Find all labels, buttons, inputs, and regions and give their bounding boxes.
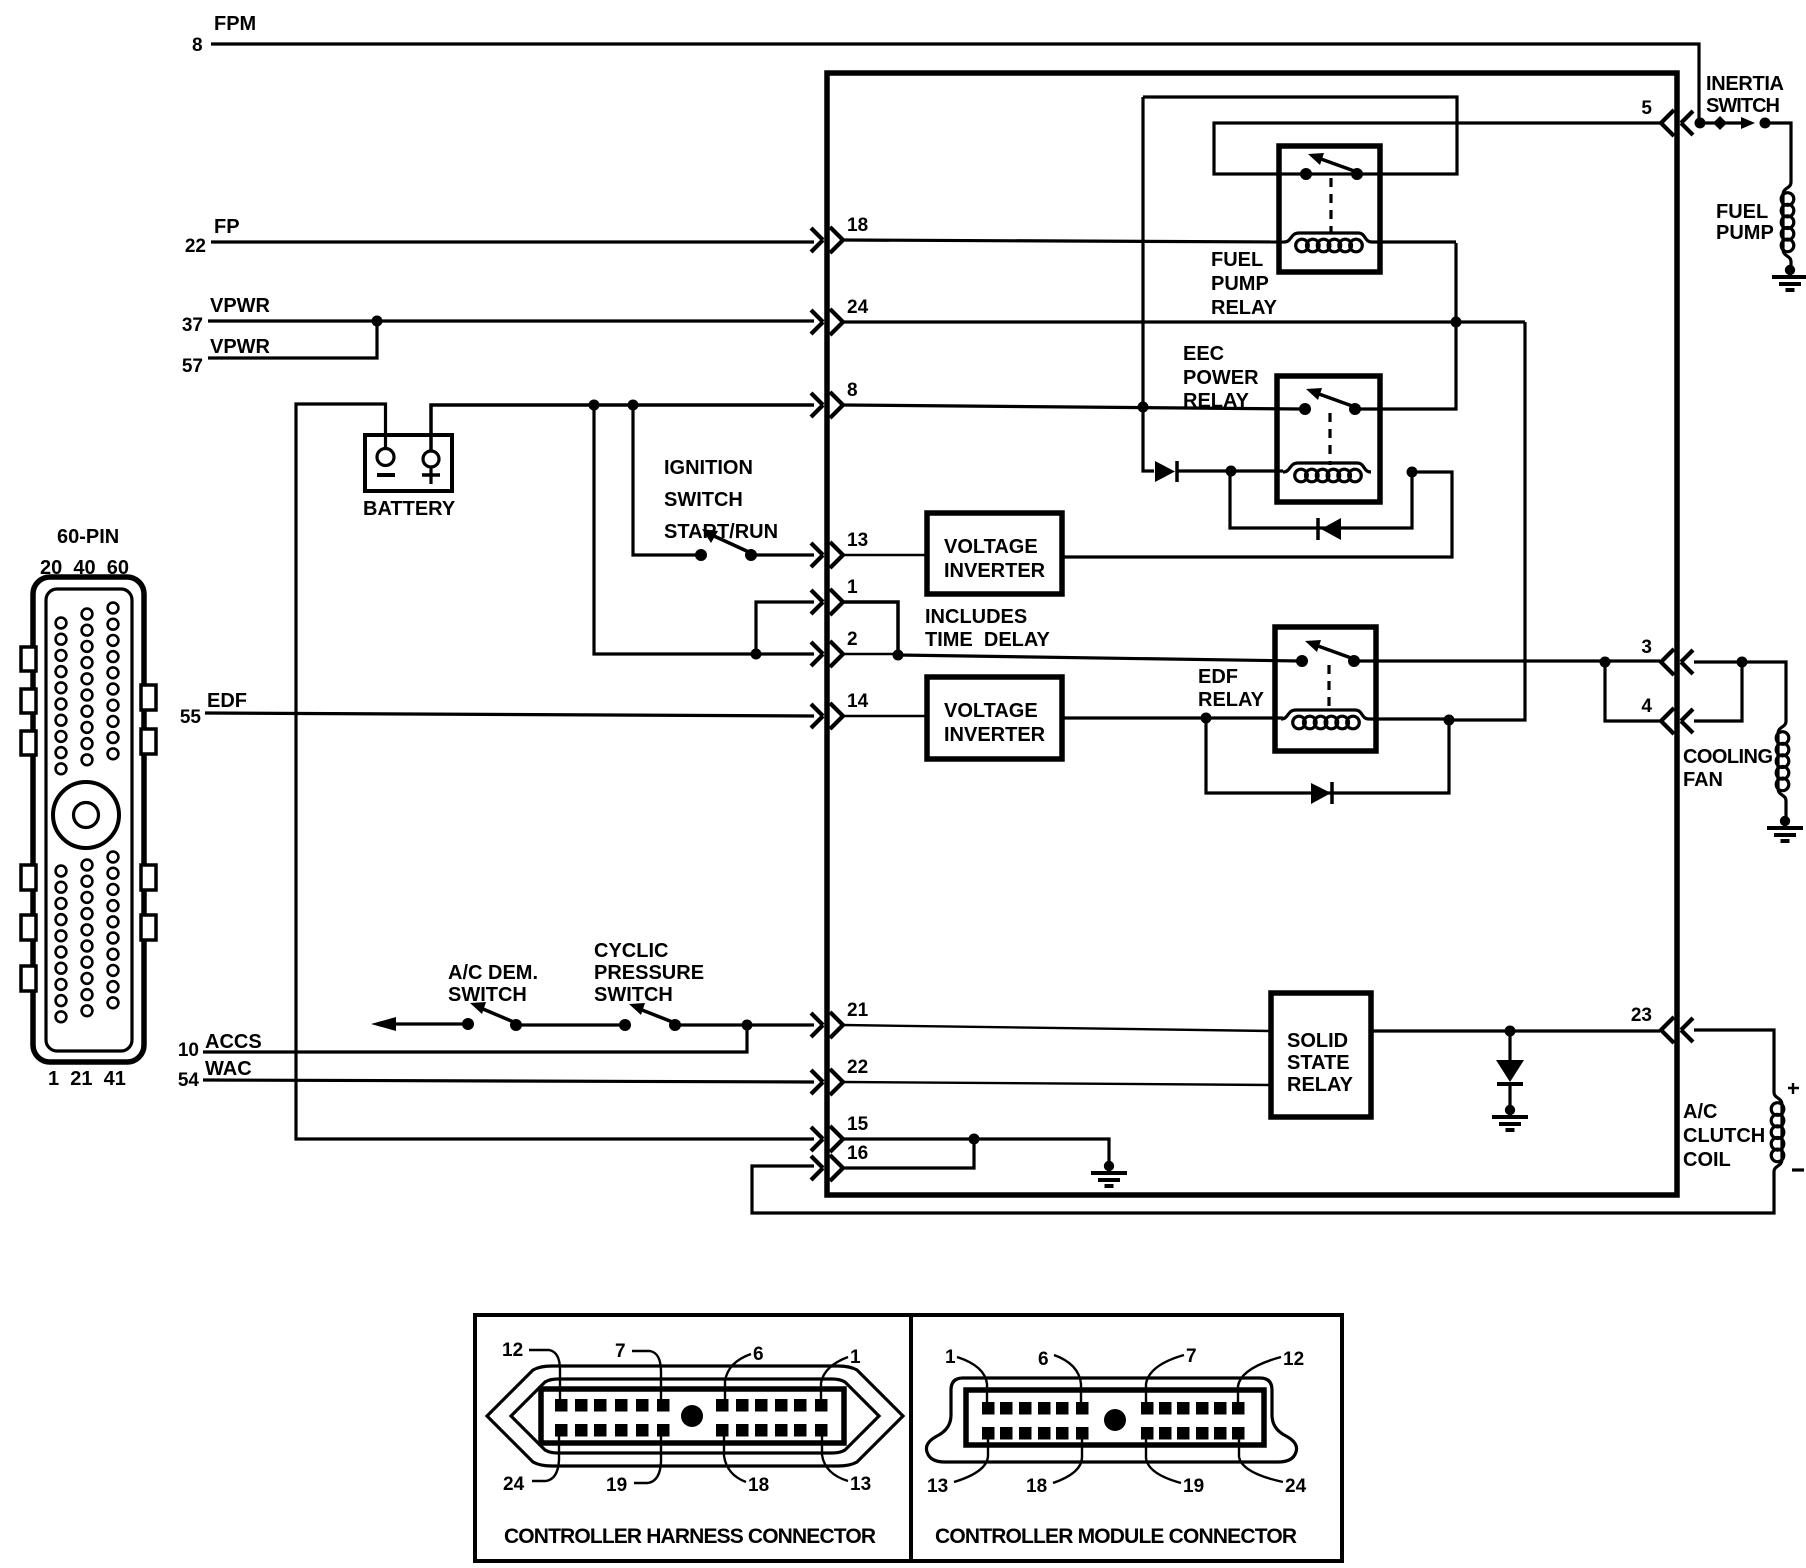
svg-text:EEC: EEC bbox=[1183, 343, 1224, 365]
60-pin connector pin holes (bottom block) bbox=[56, 852, 119, 1023]
wire FP to pin 18 bbox=[211, 240, 814, 243]
pin 2 connector chevrons bbox=[811, 641, 843, 667]
svg-text:A/C DEM.: A/C DEM. bbox=[448, 962, 538, 984]
svg-text:RELAY: RELAY bbox=[1287, 1074, 1354, 1096]
svg-text:7: 7 bbox=[615, 1341, 626, 1362]
svg-text:24: 24 bbox=[847, 297, 869, 318]
wire fuel pump relay coil to column bbox=[1372, 240, 1456, 243]
pin 24 leader bbox=[1239, 1439, 1283, 1482]
wire solid state relay output to pin 23 bbox=[1371, 1029, 1660, 1032]
pin 19 leader bbox=[634, 1436, 661, 1483]
wire inertia switch to fuel pump bbox=[1765, 123, 1791, 182]
svg-text:18: 18 bbox=[748, 1475, 769, 1496]
pin 1 leader bbox=[821, 1357, 848, 1401]
pin 24 connector chevrons bbox=[811, 309, 843, 335]
svg-text:12: 12 bbox=[1283, 1349, 1304, 1370]
wire pin 14 to voltage inverter U2 bbox=[843, 715, 927, 717]
pin 6 leader bbox=[1054, 1355, 1081, 1403]
svg-text:PUMP: PUMP bbox=[1211, 273, 1269, 295]
svg-text:VOLTAGE: VOLTAGE bbox=[944, 700, 1038, 722]
pin 7 leader bbox=[632, 1351, 661, 1400]
wire battery positive feed to pin 8 bbox=[431, 405, 814, 452]
svg-text:21: 21 bbox=[847, 1000, 869, 1021]
svg-text:10: 10 bbox=[178, 1040, 199, 1061]
wire battery negative to ground bus / pin 15 bbox=[296, 404, 814, 1139]
EEC module box outline bbox=[827, 73, 1677, 1195]
junction battery feed / ignition switch branch bbox=[628, 400, 639, 411]
svg-text:18: 18 bbox=[847, 215, 868, 236]
junction clamp diode bbox=[1505, 1026, 1516, 1037]
svg-text:FAN: FAN bbox=[1683, 769, 1723, 791]
pin 24 leader bbox=[532, 1436, 559, 1481]
connector keying notch bbox=[21, 731, 36, 755]
svg-text:RELAY: RELAY bbox=[1211, 297, 1278, 319]
junction pin 1/2 inside bbox=[893, 650, 904, 661]
wire pin 2 inside bbox=[843, 653, 898, 655]
minus terminal mark bbox=[1792, 1168, 1804, 1171]
fuel pump relay contacts bbox=[1300, 168, 1312, 180]
junction switch output / ACCS bbox=[742, 1020, 753, 1031]
svg-text:BATTERY: BATTERY bbox=[363, 498, 456, 520]
svg-text:60-PIN: 60-PIN bbox=[57, 526, 119, 548]
svg-text:22: 22 bbox=[185, 236, 206, 257]
diode D2 (EEC coil feed) bbox=[1155, 461, 1175, 482]
EEC relay freewheel diode loop bbox=[1230, 471, 1412, 528]
pin 22 connector chevrons bbox=[811, 1069, 843, 1095]
wire EDF contact to pin 3 bbox=[1354, 659, 1660, 662]
pin 13 leader bbox=[954, 1439, 988, 1482]
wire pin 8 to EEC relay contact bbox=[843, 405, 1302, 409]
svg-text:37: 37 bbox=[182, 315, 203, 336]
wire pin 21 to solid state relay bbox=[843, 1025, 1271, 1031]
svg-text:STATE: STATE bbox=[1287, 1052, 1350, 1074]
svg-text:6: 6 bbox=[753, 1344, 764, 1365]
EDF relay contacts bbox=[1296, 655, 1308, 667]
junction pin 8 wire / relay feed vertical bbox=[1138, 402, 1149, 413]
wire cyclic pressure switch to pin 21 bbox=[675, 1023, 814, 1026]
junction pin 15/16 bbox=[969, 1134, 980, 1145]
svg-text:1 21 41: 1 21 41 bbox=[48, 1068, 126, 1090]
junction battery feed / pin 2 branch bbox=[589, 400, 600, 411]
pin 8 connector chevrons bbox=[811, 392, 843, 418]
svg-text:CONTROLLER MODULE CONNECTOR: CONTROLLER MODULE CONNECTOR bbox=[935, 1525, 1297, 1548]
connector keying notch bbox=[21, 689, 36, 713]
wire VPWR pin 57 branch bbox=[208, 321, 377, 358]
wire pin 3 outside to cooling fan bbox=[1694, 662, 1786, 721]
wire pin 1 inside jumper bbox=[843, 602, 898, 655]
svg-text:57: 57 bbox=[182, 356, 203, 377]
EDF relay blade bbox=[1318, 646, 1354, 659]
pin 7 leader bbox=[1146, 1355, 1184, 1403]
connector keying notch bbox=[21, 915, 36, 940]
wire pin 13 to voltage inverter U1 bbox=[843, 554, 927, 556]
fuel pump relay K1 box bbox=[1279, 146, 1380, 272]
EDF relay plunger dashed bbox=[1327, 665, 1330, 712]
svg-text:8: 8 bbox=[192, 35, 203, 56]
solid state relay K4 box bbox=[1271, 993, 1371, 1117]
svg-text:12: 12 bbox=[502, 1340, 523, 1361]
wire voltage inverter U1 output to EEC relay coil bbox=[1062, 472, 1452, 557]
controller harness connector shell bbox=[541, 1389, 844, 1443]
60-pin connector J1 body bbox=[33, 577, 144, 1062]
svg-text:SWITCH: SWITCH bbox=[594, 984, 673, 1006]
svg-text:INVERTER: INVERTER bbox=[944, 560, 1046, 582]
wire pin 2 to EDF relay contact bbox=[898, 655, 1300, 661]
svg-text:SWITCH: SWITCH bbox=[448, 984, 527, 1006]
svg-text:FPM: FPM bbox=[214, 13, 256, 35]
cyclic pressure switch S4 bbox=[619, 1019, 631, 1031]
controller harness connector centre hole bbox=[681, 1405, 703, 1427]
EDF relay coil bbox=[1281, 710, 1369, 729]
fuel pump relay blade bbox=[1321, 159, 1357, 172]
A/C clutch coil L1 bbox=[1771, 1092, 1784, 1172]
svg-text:14: 14 bbox=[847, 691, 869, 712]
svg-text:1: 1 bbox=[945, 1347, 956, 1368]
svg-text:SWITCH: SWITCH bbox=[664, 489, 743, 511]
wire pin 23 outside to A/C clutch coil bbox=[1694, 1030, 1774, 1092]
junction pin 3/4 inside bbox=[1600, 657, 1611, 668]
pin 1 connector chevrons bbox=[811, 589, 843, 615]
connector keying notch bbox=[141, 685, 156, 710]
diode D3 (EDF freewheel) bbox=[1311, 783, 1331, 804]
pin 13 connector chevrons bbox=[811, 542, 843, 568]
svg-text:23: 23 bbox=[1631, 1005, 1652, 1026]
svg-text:8: 8 bbox=[847, 380, 858, 401]
svg-text:1: 1 bbox=[850, 1347, 861, 1368]
svg-text:4: 4 bbox=[1641, 696, 1652, 717]
EDF relay freewheel diode loop bbox=[1206, 718, 1449, 793]
svg-text:CLUTCH: CLUTCH bbox=[1683, 1125, 1765, 1147]
fuel pump motor coil bbox=[1781, 182, 1794, 262]
cooling fan motor coil bbox=[1776, 721, 1789, 801]
svg-text:CYCLIC: CYCLIC bbox=[594, 940, 668, 962]
connector keying notch bbox=[21, 647, 36, 671]
pin 6 leader bbox=[725, 1354, 751, 1400]
svg-text:24: 24 bbox=[1285, 1476, 1307, 1497]
svg-text:RELAY: RELAY bbox=[1198, 689, 1265, 711]
pin 18 connector chevrons bbox=[811, 227, 843, 253]
junction EDF coil right bbox=[1444, 715, 1455, 726]
inertia switch S2 bbox=[1705, 121, 1741, 124]
diode D1 (clamp to ground) bbox=[1508, 1031, 1511, 1060]
EEC relay plunger dashed bbox=[1328, 413, 1331, 465]
wire fuel pump relay contact loop bbox=[1214, 123, 1457, 174]
pin 21 connector chevrons bbox=[811, 1012, 843, 1038]
connector detail panel frame bbox=[475, 1315, 1342, 1561]
pin 3 connector chevrons bbox=[1661, 649, 1693, 675]
controller harness connector pins bbox=[555, 1399, 568, 1412]
wire pin 4 outside jumper bbox=[1694, 662, 1742, 721]
plus terminal mark bbox=[1788, 1083, 1799, 1094]
wire VPWR to pin 24 bbox=[208, 319, 814, 322]
svg-text:FUEL: FUEL bbox=[1211, 249, 1263, 271]
pin 12 leader bbox=[1238, 1357, 1281, 1403]
controller module connector centre hole bbox=[1104, 1409, 1126, 1431]
60-pin connector pin holes (top block) bbox=[56, 603, 119, 775]
svg-text:PRESSURE: PRESSURE bbox=[594, 962, 704, 984]
svg-text:PUMP: PUMP bbox=[1716, 222, 1774, 244]
EEC relay contacts bbox=[1299, 403, 1311, 415]
wire EDF to pin 14 bbox=[205, 713, 814, 716]
pin 23 connector chevrons bbox=[1661, 1017, 1693, 1043]
pin 18 leader bbox=[724, 1436, 746, 1482]
wire voltage inverter U2 output to EDF relay coil bbox=[1062, 716, 1283, 719]
wire EEC/fuel-pump relay feed vertical bbox=[1143, 97, 1154, 471]
EEC relay blade bbox=[1319, 394, 1355, 407]
svg-text:15: 15 bbox=[847, 1114, 869, 1135]
pin 13 leader bbox=[822, 1436, 848, 1481]
svg-text:13: 13 bbox=[847, 530, 868, 551]
battery BAT1 bbox=[365, 435, 452, 491]
EEC power relay K2 box bbox=[1277, 376, 1380, 502]
svg-text:16: 16 bbox=[847, 1143, 868, 1164]
ignition switch SW1 START/RUN bbox=[695, 549, 707, 561]
junction pin 5 / FPM bbox=[1695, 118, 1706, 129]
connector keying notch bbox=[141, 915, 156, 940]
svg-text:CONTROLLER HARNESS CONNECTOR: CONTROLLER HARNESS CONNECTOR bbox=[504, 1525, 876, 1548]
wire fuel pump relay outer loop top / pin 5 feed bbox=[1143, 97, 1660, 123]
controller module connector outline bbox=[926, 1378, 1296, 1462]
controller module connector shell bbox=[966, 1390, 1264, 1445]
EDF relay K3 box bbox=[1275, 627, 1376, 751]
svg-text:1: 1 bbox=[847, 577, 858, 598]
svg-text:ACCS: ACCS bbox=[205, 1031, 262, 1053]
pin 18 leader bbox=[1053, 1439, 1082, 1483]
svg-text:START/RUN: START/RUN bbox=[664, 521, 778, 543]
junction VPWR / relay column bbox=[1451, 317, 1462, 328]
wire EEC contact to relay column bbox=[1355, 243, 1456, 409]
voltage inverter U1 bbox=[927, 513, 1062, 594]
junction pin 1/2 outside bbox=[751, 649, 762, 660]
wire pin 22 to solid state relay bbox=[843, 1082, 1271, 1085]
ground (fuel pump) bbox=[1772, 265, 1806, 290]
svg-text:INERTIA: INERTIA bbox=[1706, 73, 1784, 95]
svg-text:22: 22 bbox=[847, 1057, 868, 1078]
wire VPWR pin 24 across to EDF feed bbox=[843, 320, 1525, 323]
pin 5 connector chevrons bbox=[1661, 110, 1693, 136]
svg-text:6: 6 bbox=[1038, 1349, 1049, 1370]
svg-text:FP: FP bbox=[214, 216, 240, 238]
pin 4 connector chevrons bbox=[1661, 708, 1693, 734]
svg-text:RELAY: RELAY bbox=[1183, 390, 1250, 412]
wire pin 18 to fuel pump relay coil bbox=[843, 240, 1284, 242]
svg-text:19: 19 bbox=[606, 1475, 627, 1496]
svg-text:SWITCH: SWITCH bbox=[1706, 95, 1780, 117]
svg-text:TIME DELAY: TIME DELAY bbox=[925, 629, 1050, 651]
wire WAC to pin 22 bbox=[203, 1080, 814, 1082]
wire A/C clutch coil return to pin 16 bbox=[752, 1166, 1774, 1213]
voltage inverter U2 bbox=[927, 677, 1062, 759]
svg-text:SOLID: SOLID bbox=[1287, 1030, 1348, 1052]
pin 1 leader bbox=[957, 1357, 987, 1403]
svg-text:COOLING: COOLING bbox=[1683, 746, 1773, 768]
svg-text:FUEL: FUEL bbox=[1716, 201, 1768, 223]
controller module connector pins bbox=[982, 1402, 995, 1415]
svg-text:VPWR: VPWR bbox=[210, 295, 271, 317]
wire pin 2 feed from battery branch bbox=[594, 405, 814, 654]
fuel pump relay plunger dashed bbox=[1329, 178, 1332, 232]
wire ignition switch feed bbox=[633, 405, 698, 555]
svg-text:24: 24 bbox=[503, 1474, 525, 1495]
svg-text:INVERTER: INVERTER bbox=[944, 724, 1046, 746]
wire ACCS to switch chain bbox=[203, 1025, 747, 1052]
junction VPWR 37/57 bbox=[372, 316, 383, 327]
svg-text:2: 2 bbox=[847, 629, 858, 650]
svg-text:VPWR: VPWR bbox=[210, 336, 271, 358]
svg-text:VOLTAGE: VOLTAGE bbox=[944, 536, 1038, 558]
wire VPWR branch down to EDF coil bbox=[1449, 322, 1525, 720]
A/C demand switch S3 bbox=[371, 1017, 396, 1031]
wire A/C demand to cyclic pressure switch bbox=[516, 1023, 625, 1026]
wire pin 1 outside jumper bbox=[756, 602, 814, 654]
junction pin 3/4 outside bbox=[1737, 657, 1748, 668]
svg-text:EDF: EDF bbox=[1198, 666, 1238, 688]
svg-text:54: 54 bbox=[178, 1070, 200, 1091]
pin 16 connector chevrons bbox=[811, 1155, 843, 1181]
wire pin 16 jumper bbox=[843, 1139, 974, 1168]
svg-text:EDF: EDF bbox=[207, 690, 247, 712]
ground (signal) bbox=[1091, 1161, 1127, 1186]
controller harness connector outline bbox=[487, 1366, 903, 1466]
svg-text:13: 13 bbox=[850, 1474, 871, 1495]
svg-text:19: 19 bbox=[1183, 1476, 1204, 1497]
svg-text:POWER: POWER bbox=[1183, 367, 1259, 389]
pin 14 connector chevrons bbox=[811, 703, 843, 729]
svg-text:55: 55 bbox=[180, 707, 202, 728]
fuel pump relay coil bbox=[1284, 233, 1372, 252]
wire pin 4 inside jumper bbox=[1605, 662, 1660, 721]
connector keying notch bbox=[21, 865, 36, 890]
wire FPM from pin 8 to inertia switch junction bbox=[211, 44, 1699, 121]
svg-text:13: 13 bbox=[927, 1476, 948, 1497]
pin 15 connector chevrons bbox=[811, 1126, 843, 1152]
pin 12 leader bbox=[529, 1350, 560, 1400]
svg-text:WAC: WAC bbox=[205, 1058, 252, 1080]
wire EDF coil to VPWR branch bbox=[1369, 717, 1449, 720]
60-pin connector centre post bbox=[53, 782, 119, 848]
wire ignition switch to pin 13 bbox=[751, 553, 814, 556]
svg-text:3: 3 bbox=[1641, 637, 1652, 658]
connector keying notch bbox=[141, 865, 156, 890]
ground (cooling fan) bbox=[1767, 816, 1803, 841]
connector keying notch bbox=[21, 966, 36, 991]
ground (clamp diode) bbox=[1492, 1105, 1528, 1130]
svg-text:INCLUDES: INCLUDES bbox=[925, 606, 1027, 628]
pin 19 leader bbox=[1146, 1439, 1181, 1483]
svg-text:7: 7 bbox=[1186, 1346, 1197, 1367]
connector keying notch bbox=[141, 729, 156, 754]
svg-text:5: 5 bbox=[1641, 98, 1652, 119]
svg-text:18: 18 bbox=[1026, 1476, 1047, 1497]
wire pin 15 to signal ground bbox=[843, 1139, 1109, 1163]
junction EDF coil left / freewheel diode bbox=[1201, 713, 1212, 724]
svg-text:A/C: A/C bbox=[1683, 1101, 1717, 1123]
svg-text:COIL: COIL bbox=[1683, 1149, 1731, 1171]
diode D4 (EEC freewheel) bbox=[1316, 518, 1320, 540]
junction EEC coil right bbox=[1407, 467, 1418, 478]
svg-text:IGNITION: IGNITION bbox=[664, 457, 753, 479]
EEC relay coil bbox=[1283, 463, 1371, 482]
junction EEC coil left bbox=[1226, 466, 1237, 477]
